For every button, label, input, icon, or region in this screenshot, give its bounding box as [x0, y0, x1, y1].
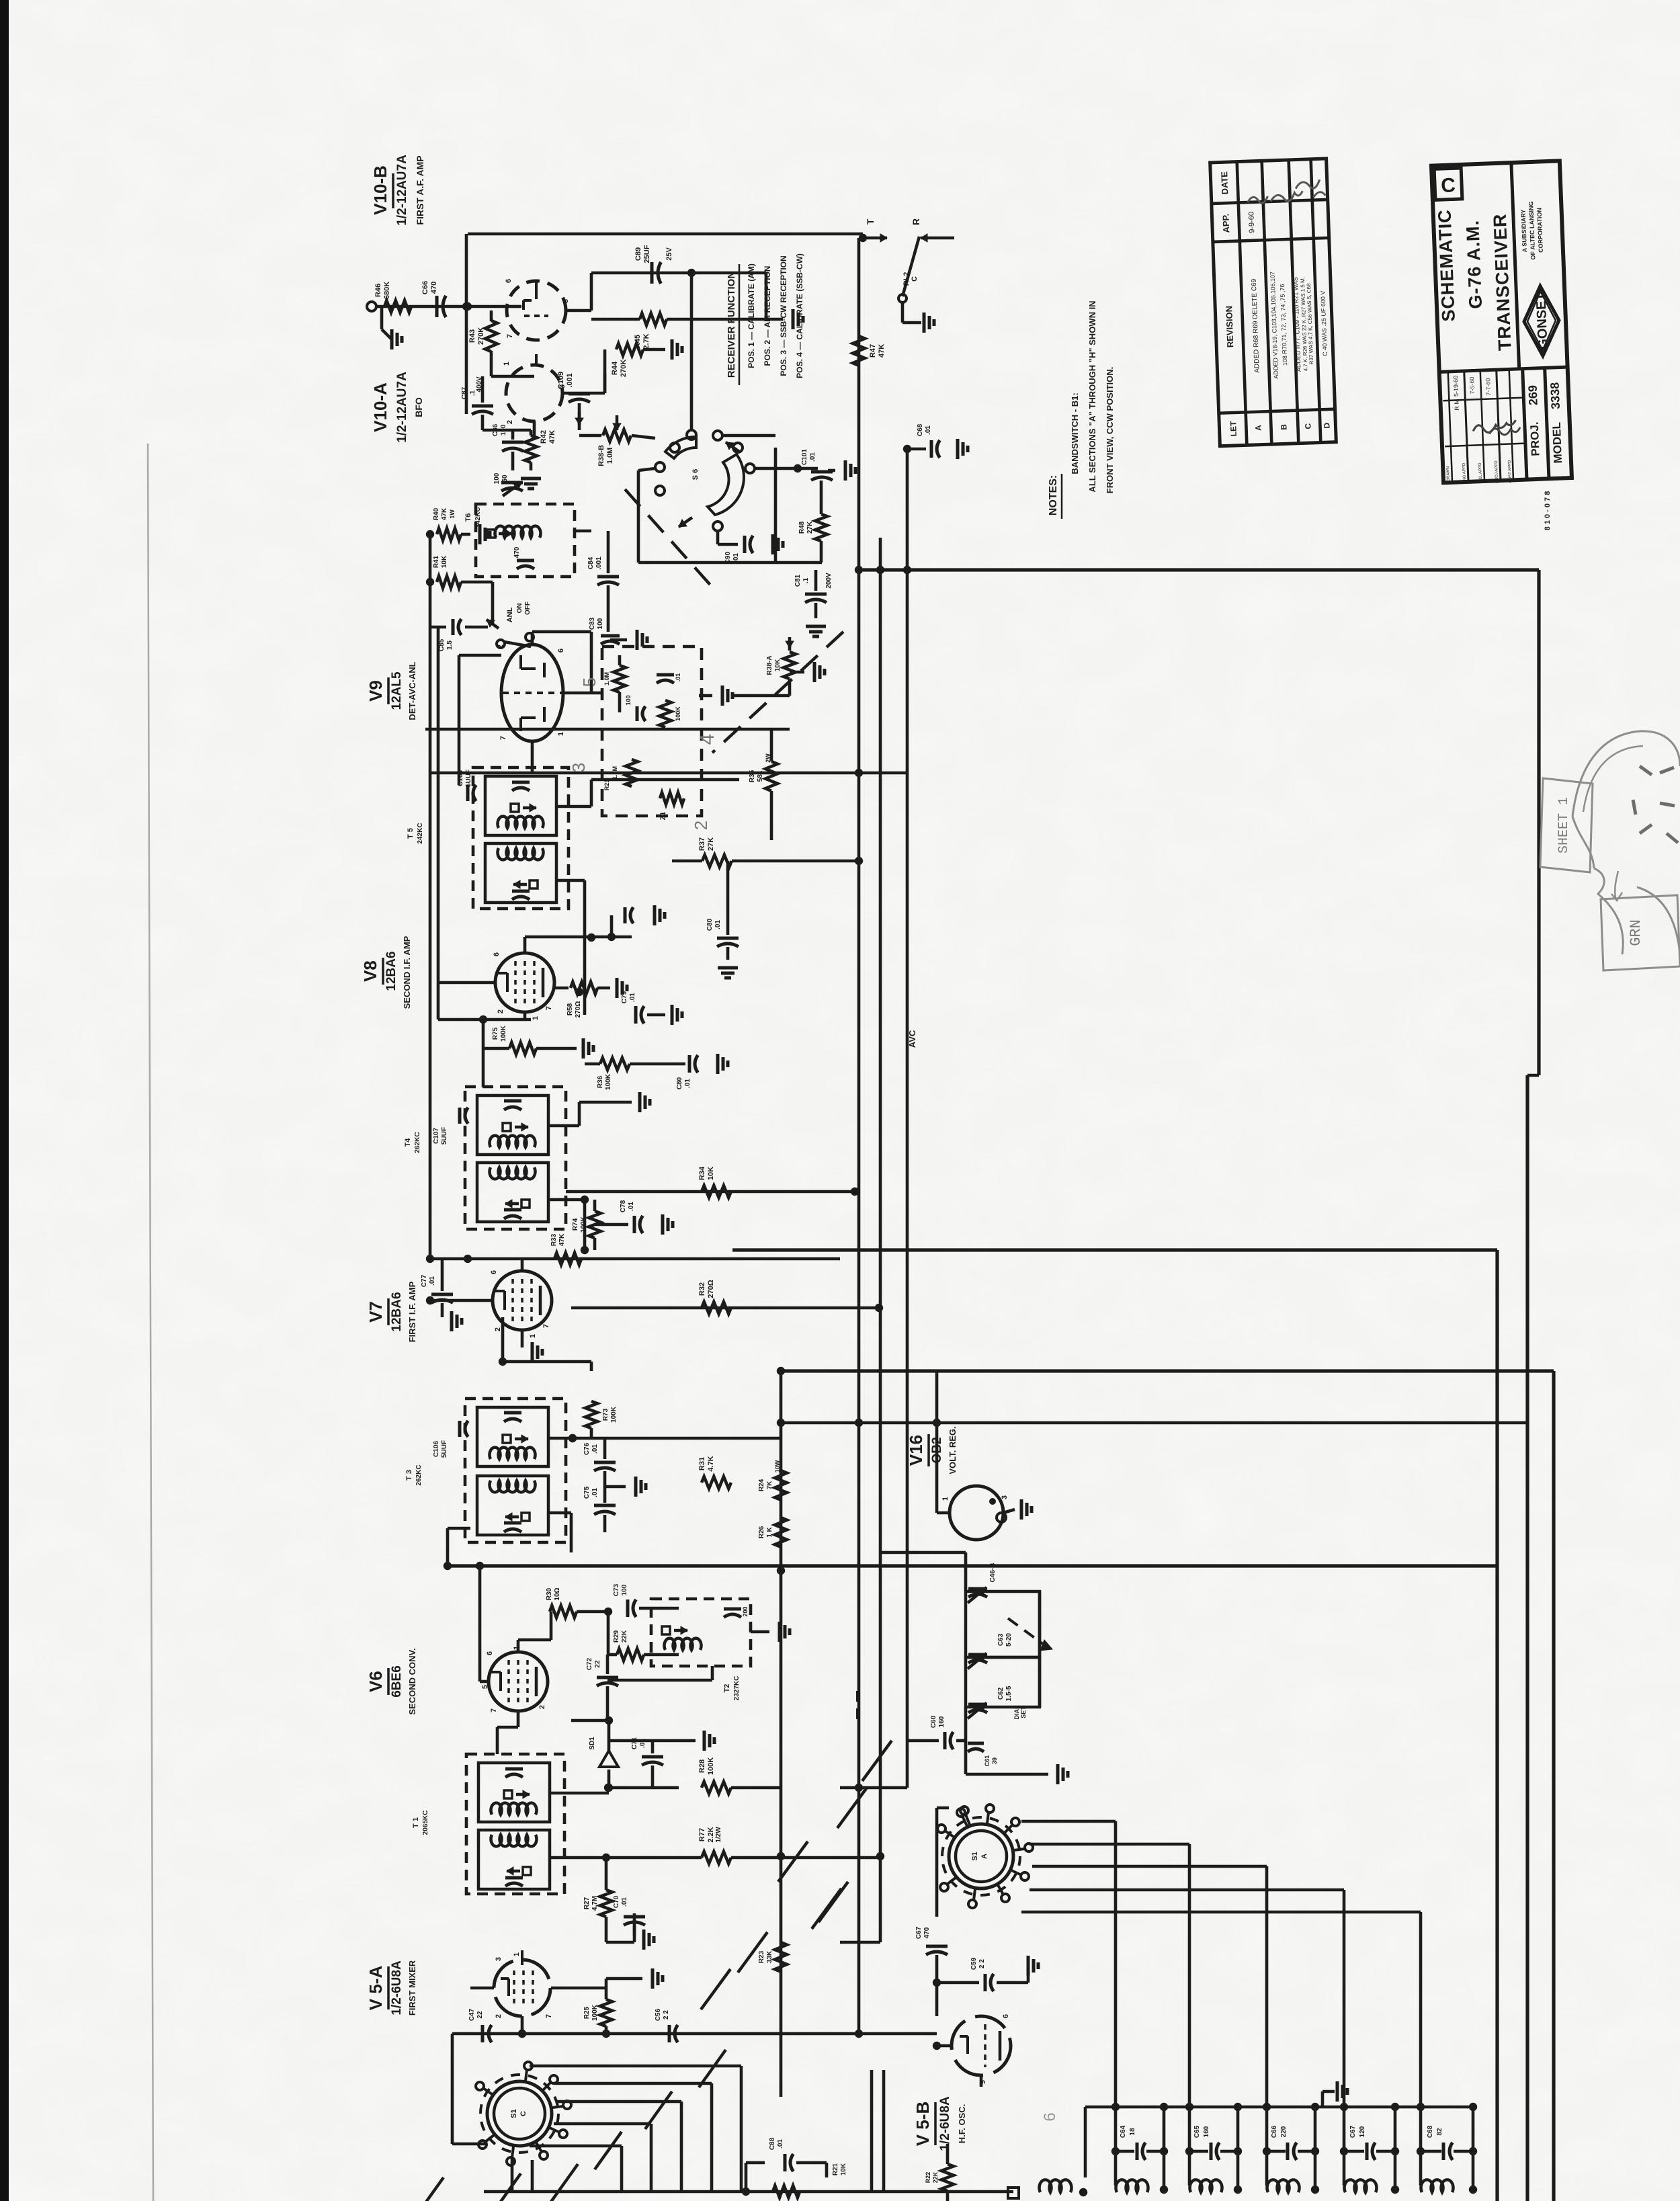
svg-text:22K: 22K [621, 1630, 628, 1643]
svg-text:82: 82 [1436, 2128, 1443, 2136]
svg-text:ALL SECTIONS "A" THROUGH "H" S: ALL SECTIONS "A" THROUGH "H" SHOWN IN [1087, 300, 1097, 492]
svg-text:22: 22 [476, 2011, 484, 2019]
svg-text:DRAWN: DRAWN [1446, 466, 1451, 482]
svg-text:C67: C67 [915, 1926, 923, 1939]
svg-text:.01: .01 [732, 553, 740, 563]
svg-text:R25: R25 [583, 2006, 591, 2019]
svg-text:R42: R42 [540, 430, 548, 444]
svg-text:R38-B: R38-B [597, 445, 605, 466]
svg-text:A: A [980, 1854, 989, 1859]
svg-text:R48: R48 [798, 521, 806, 534]
svg-text:V6: V6 [366, 1671, 386, 1692]
svg-text:4.7K: 4.7K [707, 1456, 715, 1471]
svg-text:7-5-60: 7-5-60 [1468, 376, 1476, 394]
svg-text:4.7M: 4.7M [591, 1896, 599, 1911]
svg-text:7: 7 [506, 334, 514, 338]
svg-text:C107: C107 [433, 1128, 440, 1144]
svg-text:C56: C56 [655, 2008, 662, 2021]
svg-text:.01: .01 [629, 993, 636, 1002]
svg-text:1.5: 1.5 [446, 640, 454, 650]
svg-text:100: 100 [625, 695, 632, 705]
svg-text:C77: C77 [421, 1274, 428, 1287]
svg-text:6: 6 [557, 649, 565, 653]
svg-text:LET: LET [1228, 421, 1238, 437]
svg-text:C75: C75 [583, 1486, 591, 1499]
svg-text:12AL5: 12AL5 [390, 671, 404, 710]
svg-text:6: 6 [490, 1270, 498, 1274]
svg-text:5-19-60: 5-19-60 [1452, 376, 1460, 397]
svg-text:50: 50 [501, 474, 509, 483]
svg-text:6BE6: 6BE6 [390, 1665, 404, 1698]
svg-text:RECEIVER FUNCTION: RECEIVER FUNCTION [726, 272, 737, 378]
svg-text:POS. 4 — CALIBRATE (SSB-CW): POS. 4 — CALIBRATE (SSB-CW) [795, 253, 804, 378]
svg-text:3: 3 [495, 1957, 503, 1961]
svg-text:.01: .01 [628, 1202, 635, 1211]
svg-text:C: C [519, 2111, 528, 2116]
svg-text:47K: 47K [878, 344, 886, 358]
svg-text:6: 6 [1041, 2112, 1059, 2121]
svg-text:V10-A: V10-A [370, 382, 390, 432]
svg-text:8 1 0 - 0 7 8: 8 1 0 - 0 7 8 [1544, 491, 1552, 531]
svg-text:R31: R31 [698, 1457, 706, 1470]
svg-text:RL2: RL2 [902, 272, 911, 286]
svg-text:D: D [1322, 422, 1331, 428]
svg-text:C64: C64 [1120, 2125, 1127, 2138]
svg-text:POS. 3 — SSB-CW RECEPTION: POS. 3 — SSB-CW RECEPTION [779, 255, 788, 376]
svg-text:1.5-5: 1.5-5 [1005, 1686, 1013, 1701]
svg-text:47K: 47K [441, 507, 448, 520]
svg-text:R43: R43 [468, 329, 476, 343]
svg-text:.01: .01 [591, 1444, 599, 1454]
svg-text:T4: T4 [404, 1138, 412, 1147]
svg-text:POS. 1 — CALIBRATE (AM): POS. 1 — CALIBRATE (AM) [747, 263, 756, 368]
svg-text:10W: 10W [774, 1460, 781, 1472]
svg-text:C106: C106 [433, 1441, 440, 1457]
svg-text:6: 6 [505, 279, 513, 283]
svg-text:C68: C68 [1427, 2125, 1434, 2138]
svg-text:100K: 100K [675, 706, 681, 721]
svg-text:C78: C78 [620, 1200, 627, 1212]
svg-text:V 5-A: V 5-A [366, 1966, 386, 2011]
svg-text:B: B [1279, 423, 1288, 429]
svg-text:C67: C67 [1349, 2125, 1357, 2138]
svg-text:10K: 10K [840, 2163, 847, 2175]
svg-text:FRONT VIEW, CCW POSITION.: FRONT VIEW, CCW POSITION. [1105, 367, 1115, 494]
svg-text:NOTES:: NOTES: [1048, 475, 1059, 515]
svg-text:C76: C76 [583, 1442, 591, 1455]
svg-text:47K: 47K [548, 430, 556, 444]
svg-text:7: 7 [499, 736, 507, 740]
svg-text:47K: 47K [558, 1233, 566, 1246]
svg-text:1/2-12AU7A: 1/2-12AU7A [395, 372, 409, 443]
svg-text:6: 6 [493, 952, 501, 956]
svg-text:R46: R46 [374, 284, 382, 297]
svg-text:470: 470 [923, 1927, 931, 1938]
svg-text:1.0M: 1.0M [603, 672, 610, 686]
svg-text:220: 220 [1280, 2126, 1288, 2137]
svg-text:R M: R M [1453, 399, 1460, 411]
svg-text:.01: .01 [684, 1079, 691, 1088]
svg-text:R40: R40 [433, 507, 440, 520]
svg-text:C63: C63 [997, 1633, 1005, 1646]
svg-text:C62: C62 [997, 1687, 1005, 1700]
svg-text:C101: C101 [801, 449, 808, 465]
svg-text:100K: 100K [707, 1757, 715, 1775]
svg-text:22: 22 [594, 1660, 601, 1668]
svg-text:269: 269 [1526, 385, 1540, 406]
svg-text:2 2: 2 2 [663, 2010, 670, 2020]
svg-text:S1: S1 [510, 2109, 518, 2118]
svg-text:25UF: 25UF [643, 245, 651, 263]
svg-text:AVC: AVC [907, 1030, 917, 1048]
svg-text:DATE: DATE [1219, 171, 1230, 194]
svg-text:.01: .01 [714, 920, 722, 929]
svg-text:2.7K: 2.7K [642, 333, 650, 349]
svg-text:7: 7 [545, 2014, 553, 2018]
svg-text:270K: 270K [620, 360, 628, 377]
svg-text:ANL: ANL [506, 607, 514, 622]
svg-text:2: 2 [495, 2014, 503, 2018]
svg-text:.01: .01 [809, 452, 816, 462]
svg-text:FIRST A.F. AMP: FIRST A.F. AMP [415, 155, 425, 224]
svg-text:262KC: 262KC [414, 1132, 421, 1153]
svg-text:1/2W: 1/2W [715, 1827, 722, 1843]
svg-text:10Ω: 10Ω [554, 1587, 561, 1600]
svg-text:R73: R73 [602, 1408, 610, 1421]
svg-text:4: 4 [696, 734, 718, 745]
svg-text:200V: 200V [825, 573, 833, 589]
svg-text:2: 2 [538, 1705, 546, 1709]
svg-text:REVISION: REVISION [1224, 306, 1235, 348]
svg-text:R41: R41 [433, 555, 440, 568]
svg-text:C80: C80 [676, 1077, 683, 1089]
svg-text:R36: R36 [597, 1075, 604, 1088]
svg-text:.1: .1 [802, 577, 810, 583]
svg-text:5: 5 [481, 1685, 489, 1689]
svg-text:3: 3 [1001, 1495, 1009, 1499]
svg-text:C65: C65 [1193, 2125, 1201, 2138]
svg-text:C60: C60 [930, 1715, 937, 1728]
svg-text:5UUF: 5UUF [465, 770, 472, 787]
svg-text:Z1: Z1 [659, 812, 667, 821]
svg-text:C87: C87 [461, 386, 468, 399]
svg-text:VOLT. REG.: VOLT. REG. [948, 1426, 958, 1474]
svg-text:GRN: GRN [1628, 919, 1644, 946]
svg-text:9: 9 [979, 2080, 987, 2084]
svg-text:C85: C85 [438, 638, 446, 651]
svg-text:7: 7 [542, 1324, 550, 1328]
svg-text:SET: SET [1020, 1706, 1027, 1718]
svg-text:100K: 100K [580, 1216, 587, 1233]
svg-text:.01: .01 [675, 673, 681, 682]
svg-text:.01: .01 [925, 425, 932, 435]
svg-text:10K: 10K [707, 1167, 715, 1180]
svg-text:100: 100 [621, 1584, 628, 1595]
svg-text:V8: V8 [360, 960, 380, 982]
svg-text:7-7-60: 7-7-60 [1484, 378, 1492, 395]
svg-text:3: 3 [569, 763, 589, 772]
svg-text:6: 6 [486, 1651, 494, 1655]
svg-text:SECOND I.F. AMP: SECOND I.F. AMP [402, 936, 412, 1009]
svg-text:V16: V16 [906, 1435, 926, 1466]
svg-text:DIAL: DIAL [1013, 1705, 1020, 1719]
svg-text:R32: R32 [698, 1282, 706, 1296]
svg-text:2: 2 [506, 420, 514, 424]
svg-text:R58: R58 [566, 1003, 574, 1015]
svg-text:C90: C90 [724, 551, 732, 564]
svg-text:7: 7 [545, 1006, 553, 1010]
svg-text:REL APPD: REL APPD [1478, 462, 1483, 483]
svg-text:FIRST MIXER: FIRST MIXER [407, 1960, 417, 2016]
svg-text:GONSET: GONSET [1534, 292, 1550, 349]
svg-text:R75: R75 [492, 1027, 499, 1040]
svg-text:22K: 22K [932, 2171, 939, 2183]
svg-text:V 5-B: V 5-B [913, 2102, 933, 2146]
svg-text:470: 470 [430, 282, 438, 294]
svg-text:7K: 7K [766, 1481, 773, 1490]
svg-text:C73: C73 [613, 1583, 620, 1596]
svg-text:C: C [911, 276, 919, 282]
svg-text:PROJ.: PROJ. [1528, 421, 1542, 456]
svg-text:10K: 10K [774, 659, 782, 671]
svg-text:2: 2 [497, 1009, 505, 1013]
svg-text:1: 1 [532, 1016, 540, 1020]
svg-text:C89: C89 [634, 247, 642, 261]
svg-text:C61: C61 [984, 1755, 991, 1767]
svg-text:C47: C47 [468, 2008, 476, 2021]
svg-text:9-9-60: 9-9-60 [1247, 212, 1256, 233]
svg-text:.001: .001 [566, 373, 574, 387]
svg-text:R23: R23 [758, 1950, 765, 1963]
svg-text:SECOND CONV.: SECOND CONV. [407, 1648, 417, 1714]
svg-text:BANDSWITCH - B1:: BANDSWITCH - B1: [1070, 392, 1080, 474]
svg-text:C80: C80 [706, 918, 714, 931]
svg-text:R29: R29 [613, 1630, 620, 1643]
svg-text:100: 100 [493, 472, 501, 484]
svg-text:100K: 100K [610, 1406, 618, 1423]
svg-text:T6: T6 [464, 513, 472, 522]
svg-text:1: 1 [941, 1497, 950, 1501]
svg-text:5UUF: 5UUF [441, 1127, 448, 1145]
svg-text:R47: R47 [869, 344, 877, 358]
svg-text:R37: R37 [698, 837, 706, 851]
svg-text:160: 160 [1203, 2126, 1210, 2137]
svg-text:120: 120 [1359, 2126, 1366, 2137]
svg-text:3: 3 [558, 384, 566, 388]
svg-text:C66: C66 [1271, 2125, 1278, 2138]
svg-text:BFO: BFO [413, 397, 424, 417]
svg-text:C71: C71 [631, 1737, 638, 1749]
svg-text:C: C [1303, 423, 1312, 429]
svg-text:2: 2 [497, 645, 505, 649]
svg-text:C66: C66 [421, 281, 429, 294]
svg-text:1/2-6U8A: 1/2-6U8A [938, 2096, 952, 2151]
svg-text:1: 1 [503, 362, 511, 366]
svg-text:C84: C84 [587, 556, 595, 569]
svg-text:39: 39 [991, 1757, 998, 1764]
svg-text:S1: S1 [971, 1852, 979, 1860]
svg-text:2 2: 2 2 [978, 1959, 986, 1968]
svg-text:SD1: SD1 [589, 1737, 596, 1750]
svg-text:1: 1 [513, 1646, 521, 1650]
svg-text:DET-AVC-ANL: DET-AVC-ANL [407, 661, 417, 720]
svg-text:1 K: 1 K [766, 1526, 773, 1537]
svg-text:R74: R74 [572, 1218, 579, 1231]
svg-text:200: 200 [742, 1606, 749, 1616]
svg-text:A: A [1253, 425, 1263, 431]
svg-text:SCHEMATIC: SCHEMATIC [1434, 209, 1458, 323]
svg-text:6: 6 [1002, 2014, 1010, 2018]
svg-text:5UUF: 5UUF [441, 1440, 448, 1458]
svg-text:2327KC: 2327KC [733, 1676, 741, 1701]
svg-text:33K: 33K [766, 1950, 773, 1963]
svg-text:2065KC: 2065KC [422, 1811, 429, 1835]
svg-text:1/2-6U8A: 1/2-6U8A [390, 1960, 404, 2016]
svg-text:C70: C70 [613, 1895, 620, 1908]
svg-text:T 1: T 1 [412, 1817, 420, 1828]
svg-text:242KC: 242KC [417, 823, 424, 843]
svg-text:R35: R35 [749, 770, 756, 782]
svg-text:V9: V9 [366, 680, 386, 702]
svg-text:G-76 A.M.: G-76 A.M. [1462, 220, 1486, 310]
svg-text:C: C [1441, 174, 1456, 197]
svg-text:.01: .01 [429, 1276, 436, 1286]
svg-text:.01: .01 [777, 2139, 784, 2149]
svg-text:T 5: T 5 [407, 828, 415, 839]
svg-text:R28: R28 [698, 1759, 706, 1773]
svg-text:262KC: 262KC [415, 1464, 423, 1485]
svg-text:100: 100 [597, 618, 604, 629]
svg-text:H.F. OSC.: H.F. OSC. [957, 2104, 967, 2144]
svg-text:R77: R77 [698, 1828, 706, 1841]
svg-text:C46-B: C46-B [989, 1563, 997, 1583]
svg-text:27K: 27K [806, 521, 814, 534]
svg-text:R27: R27 [583, 1897, 591, 1909]
svg-text:1: 1 [557, 732, 565, 736]
svg-text:100K: 100K [591, 2004, 599, 2021]
svg-text:C88: C88 [769, 2137, 776, 2150]
svg-text:25V: 25V [665, 247, 673, 261]
svg-text:R26: R26 [758, 1526, 765, 1538]
svg-text:R30: R30 [546, 1587, 553, 1600]
svg-text:2.2K: 2.2K [707, 1827, 715, 1842]
svg-text:V10-B: V10-B [370, 165, 390, 215]
svg-text:APP.: APP. [1220, 214, 1231, 233]
svg-text:1/2-12AU7A: 1/2-12AU7A [395, 155, 409, 226]
svg-text:1.0M: 1.0M [612, 766, 618, 780]
svg-text:270K: 270K [477, 327, 485, 345]
svg-text:12BA6: 12BA6 [390, 1292, 404, 1331]
svg-text:ENG APPD: ENG APPD [1462, 462, 1467, 484]
svg-text:18: 18 [1129, 2128, 1136, 2136]
svg-text:10K: 10K [441, 555, 448, 568]
svg-text:2: 2 [691, 821, 711, 830]
svg-text:R24: R24 [758, 1479, 765, 1491]
svg-text:8: 8 [562, 299, 570, 303]
svg-text:1: 1 [529, 1334, 537, 1338]
svg-text:2: 2 [494, 1327, 502, 1331]
svg-text:270Ω: 270Ω [707, 1280, 715, 1298]
svg-text:S 6: S 6 [691, 469, 700, 481]
svg-text:OFF: OFF [524, 601, 532, 615]
svg-text:SHEET 1: SHEET 1 [1556, 797, 1572, 854]
svg-text:T2: T2 [723, 1684, 731, 1693]
svg-text:R22: R22 [925, 2172, 931, 2184]
svg-text:C68: C68 [917, 423, 924, 436]
svg-text:C81: C81 [794, 574, 802, 587]
svg-text:R: R [911, 218, 921, 225]
svg-text:ON: ON [516, 604, 523, 614]
svg-text:160: 160 [938, 1716, 946, 1727]
svg-text:5-20: 5-20 [1005, 1633, 1013, 1647]
svg-text:.01: .01 [591, 1488, 599, 1497]
svg-text:680K: 680K [383, 282, 391, 299]
svg-text:R21: R21 [832, 2163, 839, 2175]
svg-text:C59: C59 [970, 1957, 978, 1970]
svg-text:100K: 100K [605, 1073, 612, 1090]
svg-text:T 3: T 3 [405, 1470, 413, 1481]
svg-text:.001: .001 [595, 556, 603, 570]
svg-text:1.0M: 1.0M [606, 448, 614, 464]
svg-text:270Ω: 270Ω [575, 1001, 582, 1018]
svg-text:581: 581 [757, 770, 764, 782]
svg-text:5: 5 [579, 677, 599, 687]
svg-text:C72: C72 [586, 1657, 593, 1670]
svg-text:3338: 3338 [1548, 382, 1562, 409]
svg-text:R44: R44 [611, 361, 619, 375]
svg-text:R33: R33 [550, 1233, 558, 1246]
svg-text:27K: 27K [707, 837, 715, 851]
svg-text:1W: 1W [449, 509, 456, 519]
svg-text:MODEL: MODEL [1550, 422, 1564, 464]
svg-text:470: 470 [513, 546, 521, 558]
svg-text:.01: .01 [621, 1897, 628, 1907]
svg-text:T: T [865, 218, 876, 224]
svg-text:R34: R34 [698, 1166, 706, 1180]
svg-text:R38-A: R38-A [766, 656, 773, 675]
svg-text:12BA6: 12BA6 [384, 951, 398, 991]
svg-text:POS. 2 — AM RECEPTION: POS. 2 — AM RECEPTION [763, 266, 772, 366]
svg-text:C108: C108 [457, 770, 464, 786]
svg-text:100K: 100K [500, 1025, 507, 1042]
svg-text:C83: C83 [589, 617, 596, 630]
svg-text:7: 7 [490, 1708, 498, 1712]
svg-text:V7: V7 [366, 1301, 386, 1323]
svg-text:1: 1 [513, 1952, 521, 1956]
svg-text:FIRST I.F. AMP: FIRST I.F. AMP [407, 1281, 417, 1342]
